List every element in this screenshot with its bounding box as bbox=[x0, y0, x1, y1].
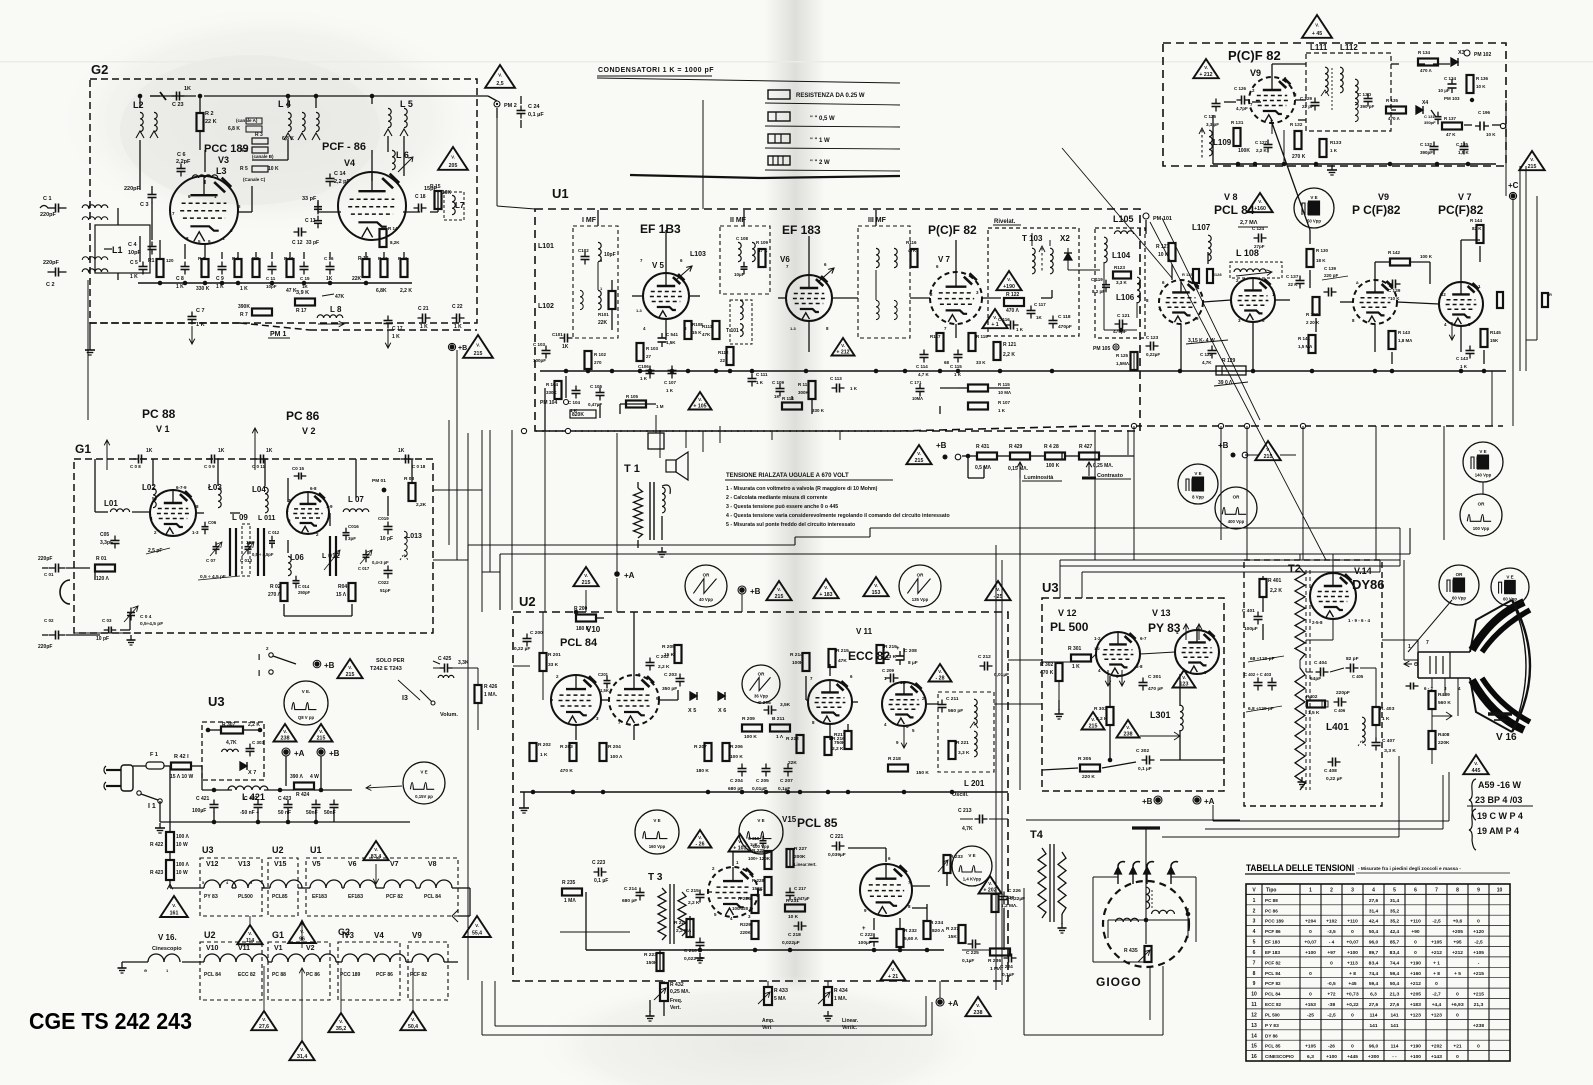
svg-text:PCF 86: PCF 86 bbox=[1265, 929, 1281, 934]
svg-text:V9: V9 bbox=[412, 931, 422, 940]
svg-text:+102: +102 bbox=[1326, 919, 1337, 925]
svg-text:15: 15 bbox=[1251, 1044, 1257, 1050]
svg-text:820K: 820K bbox=[572, 412, 584, 418]
wire u2 right links bbox=[1008, 699, 1060, 701]
svg-text:220pF: 220pF bbox=[40, 212, 57, 218]
resistor R238 1,2M bbox=[992, 894, 999, 912]
svg-text:1 K: 1 K bbox=[756, 380, 764, 385]
svg-text:R 5: R 5 bbox=[240, 166, 248, 172]
svg-text:220pF: 220pF bbox=[124, 186, 141, 192]
arrow I3 bbox=[398, 680, 420, 700]
capacitor C117 1K bbox=[1030, 306, 1032, 311]
capacitor C205 0,01uF bbox=[765, 764, 767, 769]
svg-text:R408: R408 bbox=[1438, 732, 1450, 738]
svg-text:R111: R111 bbox=[702, 324, 713, 329]
capacitor C218 0,022uF bbox=[794, 925, 799, 927]
svg-text:Ł03: Ł03 bbox=[208, 483, 222, 492]
resistor R307 2,2K bbox=[221, 727, 243, 734]
ground G2 left bbox=[89, 323, 91, 345]
triangle warn 445 bbox=[1463, 755, 1488, 774]
svg-text:50 nF: 50 nF bbox=[278, 810, 291, 816]
svg-text:V.: V. bbox=[584, 573, 588, 578]
capacitor C08 1K bbox=[134, 458, 139, 460]
triangle warn 83,4 bbox=[363, 841, 388, 860]
svg-text:390 pF: 390 pF bbox=[1360, 104, 1375, 109]
svg-text:PCL 84: PCL 84 bbox=[424, 894, 441, 900]
svg-text:Q8 V pp: Q8 V pp bbox=[298, 715, 315, 720]
svg-text:+A: +A bbox=[294, 749, 305, 758]
svg-text:2,2 K: 2,2 K bbox=[658, 664, 670, 670]
svg-text:R 226: R 226 bbox=[738, 896, 751, 902]
resistor R228 150K bbox=[765, 877, 772, 895]
svg-text:P(C)F 82: P(C)F 82 bbox=[1228, 48, 1281, 63]
tube V13 bbox=[1175, 630, 1219, 674]
box III MF bbox=[858, 226, 910, 338]
resistor R139 220K bbox=[1313, 297, 1320, 315]
svg-text:" " 2 W: " " 2 W bbox=[810, 160, 830, 166]
svg-text:3,3K: 3,3K bbox=[458, 660, 469, 666]
svg-text:4,7 K: 4,7 K bbox=[918, 372, 930, 377]
svg-text:R 424: R 424 bbox=[296, 792, 310, 798]
triangle warn 153 bbox=[863, 577, 888, 596]
capacitor C016 3pF bbox=[345, 528, 347, 533]
capacitor C116 1K bbox=[1006, 324, 1011, 326]
svg-text:" " 0,5 W: " " 0,5 W bbox=[810, 116, 835, 122]
svg-text:C 014: C 014 bbox=[298, 584, 310, 589]
svg-text:+190: +190 bbox=[1410, 960, 1421, 966]
svg-text:215: 215 bbox=[1264, 454, 1273, 460]
capacitor C101 1K bbox=[560, 337, 565, 339]
svg-text:2: 2 bbox=[1330, 888, 1333, 894]
svg-text:R 223: R 223 bbox=[644, 952, 657, 958]
resistor R1 120 bbox=[157, 259, 164, 277]
wave circle 60Vpp a bbox=[1439, 565, 1479, 605]
wire heater row1 end bbox=[458, 887, 470, 889]
svg-text:C 222: C 222 bbox=[860, 932, 873, 938]
resistor R117 68 bbox=[937, 333, 944, 351]
svg-text:Freq.: Freq. bbox=[670, 998, 683, 1004]
svg-text:PCF 82: PCF 82 bbox=[1265, 960, 1281, 965]
svg-text:PC(F)82: PC(F)82 bbox=[1438, 203, 1484, 217]
resistor R423 100ohm bbox=[166, 860, 174, 880]
capacitor C129 22pF bbox=[1314, 98, 1316, 103]
svg-text:R 426: R 426 bbox=[484, 684, 498, 690]
resistor R14 8,2K bbox=[380, 229, 387, 247]
trimmer C04 bbox=[130, 608, 132, 613]
svg-text:PCC 189: PCC 189 bbox=[1265, 919, 1284, 924]
svg-text:33 pF: 33 pF bbox=[302, 196, 317, 202]
svg-text:V.: V. bbox=[1007, 277, 1011, 282]
crt types bracket bbox=[1469, 779, 1476, 820]
resistor R135 470 bbox=[1386, 107, 1406, 114]
svg-text:C 223: C 223 bbox=[592, 860, 606, 866]
svg-text:PCL 85: PCL 85 bbox=[1265, 1044, 1281, 1049]
wave circle 140Vpp bbox=[1463, 442, 1503, 482]
pot R433 bbox=[764, 987, 772, 1005]
wire G1 interior bbox=[94, 459, 96, 512]
svg-text:3pF: 3pF bbox=[348, 536, 356, 541]
svg-text:OR: OR bbox=[1233, 495, 1241, 500]
resistor R202 1K bbox=[530, 743, 537, 761]
coil L7 bbox=[452, 195, 455, 214]
capacitor C18 15pF bbox=[414, 207, 419, 209]
coil L3 top bbox=[192, 175, 218, 178]
terminal +A psu bbox=[283, 749, 289, 755]
capacitor C131 bbox=[1437, 112, 1439, 117]
svg-text:50 Vpp: 50 Vpp bbox=[1307, 218, 1321, 223]
svg-text:I: I bbox=[258, 669, 260, 678]
capacitor C401 100pF bbox=[1257, 612, 1259, 617]
wire v3 plate to L4 bbox=[237, 211, 252, 213]
svg-text:1 K: 1 K bbox=[196, 322, 205, 328]
svg-text:V.: V. bbox=[698, 397, 702, 402]
svg-text:33 K: 33 K bbox=[548, 662, 559, 668]
svg-text:EF 18З: EF 18З bbox=[1265, 950, 1280, 955]
svg-text:V7: V7 bbox=[390, 861, 399, 868]
capacitor C127 2,2K bbox=[1267, 140, 1269, 145]
legend rule top bbox=[597, 78, 900, 83]
svg-text:470 pF: 470 pF bbox=[1148, 686, 1163, 692]
capacitor C301 470pF bbox=[1142, 678, 1144, 683]
heater V5 V6 V7 V8 bbox=[310, 880, 326, 888]
svg-text:1-2: 1-2 bbox=[1094, 636, 1101, 641]
capacitor C212 0,01uF bbox=[980, 665, 985, 667]
svg-text:100µF: 100µF bbox=[1244, 626, 1258, 632]
capacitor C113 1K bbox=[832, 387, 837, 389]
svg-text:R 4З5: R 4З5 bbox=[1124, 948, 1138, 954]
svg-text:560 pF: 560 pF bbox=[948, 708, 963, 714]
svg-text:C 103: C 103 bbox=[533, 342, 546, 347]
svg-text:220 pF: 220 pF bbox=[1324, 273, 1339, 278]
svg-text:36 Vpp: 36 Vpp bbox=[754, 694, 768, 699]
svg-text:0: 0 bbox=[1456, 992, 1459, 998]
svg-text:V E: V E bbox=[757, 818, 764, 823]
capacitor C404 64pF bbox=[1316, 671, 1321, 673]
capacitor C103 100pF bbox=[545, 346, 547, 351]
box heater G2b bbox=[338, 942, 400, 1000]
svg-text:ECC 82: ECC 82 bbox=[238, 972, 256, 978]
svg-text:C 3: C 3 bbox=[140, 202, 149, 208]
svg-text:445: 445 bbox=[1472, 768, 1481, 774]
capacitor C24 0,1uF bbox=[520, 106, 522, 111]
svg-text:R: R bbox=[1549, 292, 1552, 297]
svg-text:89,7: 89,7 bbox=[1369, 950, 1379, 956]
svg-text:0,1µF: 0,1µF bbox=[962, 958, 974, 964]
svg-text:+0,6: +0,6 bbox=[1453, 919, 1463, 925]
svg-text:C 0 9: C 0 9 bbox=[204, 464, 215, 469]
svg-text:120: 120 bbox=[166, 258, 174, 263]
svg-text:C 6: C 6 bbox=[177, 152, 186, 158]
svg-text:3: 3 bbox=[1351, 888, 1354, 894]
svg-text:V.: V. bbox=[938, 669, 942, 674]
svg-text:+18З: +18З bbox=[1410, 1002, 1421, 1008]
svg-text:0: 0 bbox=[1351, 1012, 1354, 1018]
svg-text:(canale A): (canale A) bbox=[236, 118, 258, 123]
wire pot row bbox=[962, 455, 977, 457]
resistor R107 1K bbox=[968, 403, 988, 410]
resistor R2 22K bbox=[197, 113, 204, 131]
svg-text:R 232: R 232 bbox=[904, 928, 917, 934]
svg-text:V.: V. bbox=[993, 315, 997, 320]
svg-text:L06: L06 bbox=[290, 553, 304, 562]
svg-text:1-9: 1-9 bbox=[326, 504, 333, 509]
svg-text:PL500: PL500 bbox=[238, 894, 253, 900]
svg-text:Oscill.: Oscill. bbox=[952, 792, 969, 798]
resistor R8 bbox=[253, 259, 260, 277]
svg-text:4 W: 4 W bbox=[310, 774, 319, 780]
svg-text:390pF: 390pF bbox=[1420, 150, 1433, 155]
resistor R108 15K bbox=[685, 321, 692, 339]
svg-text:U2: U2 bbox=[204, 930, 216, 940]
resistor R03 2,2K bbox=[409, 483, 416, 501]
svg-text:100µF: 100µF bbox=[192, 808, 206, 814]
svg-text:+B: +B bbox=[324, 661, 335, 670]
svg-text:0,15 MΛ.: 0,15 MΛ. bbox=[1008, 466, 1029, 472]
svg-text:2 20 K: 2 20 K bbox=[1306, 320, 1320, 325]
svg-text:L102: L102 bbox=[538, 303, 554, 310]
coil L106 bbox=[1137, 277, 1140, 303]
resistor R02 270 bbox=[281, 583, 288, 601]
svg-text:1K: 1K bbox=[1036, 315, 1043, 320]
svg-text:R 231: R 231 bbox=[786, 898, 799, 904]
diode X3 bbox=[1451, 58, 1458, 66]
svg-text:+A: +A bbox=[624, 571, 635, 580]
svg-text:270 K: 270 K bbox=[1292, 154, 1306, 160]
svg-text:Rivelat.: Rivelat. bbox=[994, 219, 1016, 225]
resistor R04 15 bbox=[349, 583, 356, 601]
svg-text:1K: 1K bbox=[562, 344, 569, 350]
transformer T3 bbox=[658, 888, 666, 940]
svg-text:C 206: C 206 bbox=[758, 700, 771, 706]
svg-text:V9: V9 bbox=[1378, 192, 1389, 202]
svg-text:22: 22 bbox=[720, 358, 726, 363]
svg-text:C 1: C 1 bbox=[43, 196, 52, 202]
svg-text:1 K: 1 K bbox=[420, 324, 428, 330]
svg-text:+202: +202 bbox=[1431, 1044, 1442, 1050]
wire flyback to crt bbox=[1382, 639, 1418, 641]
svg-text:+45: +45 bbox=[1348, 981, 1356, 987]
svg-text:12З: 12З bbox=[1179, 682, 1189, 688]
svg-text:R 113: R 113 bbox=[798, 382, 810, 387]
svg-text:PCC 189: PCC 189 bbox=[340, 972, 361, 978]
svg-text:V 8: V 8 bbox=[1224, 192, 1238, 202]
svg-text:R. 40З: R. 40З bbox=[1380, 706, 1394, 712]
svg-text:8,2 pF: 8,2 pF bbox=[1092, 289, 1105, 294]
resistor R4 canale B bbox=[252, 147, 268, 153]
svg-text:+ 105: + 105 bbox=[693, 404, 706, 410]
svg-text:R 01: R 01 bbox=[96, 556, 107, 562]
svg-text:+ 212: + 212 bbox=[1199, 72, 1212, 78]
heater V3 V4 bbox=[342, 954, 358, 962]
svg-text:A59 -16 W: A59 -16 W bbox=[1478, 780, 1522, 790]
svg-text:Contrasto: Contrasto bbox=[1097, 473, 1124, 479]
svg-text:1 K: 1 K bbox=[130, 274, 138, 280]
coil L401 bbox=[1362, 717, 1365, 743]
triangle warn 215 u2 bbox=[766, 581, 791, 600]
svg-text:330K: 330K bbox=[546, 390, 558, 395]
svg-text:15 Λ: 15 Λ bbox=[336, 592, 347, 598]
capacitor C214 680pF bbox=[639, 888, 641, 893]
svg-text:R 143: R 143 bbox=[1398, 330, 1411, 335]
svg-text:-2,5: -2,5 bbox=[1327, 1012, 1336, 1018]
box G1 bbox=[74, 459, 433, 633]
svg-text:11: 11 bbox=[1251, 1002, 1257, 1008]
wire right bus 371 bbox=[1140, 370, 1506, 372]
wire U1 bottom rail bbox=[536, 430, 900, 432]
svg-text:V.: V. bbox=[374, 847, 378, 852]
giogo coil right bbox=[1152, 910, 1175, 914]
pot R435 bbox=[1145, 946, 1152, 962]
svg-text:T 1: T 1 bbox=[624, 463, 640, 475]
resistor R111 47K bbox=[713, 321, 720, 339]
ground C216 bbox=[699, 953, 701, 958]
resistor R15 10K bbox=[435, 191, 442, 209]
box L1 bbox=[95, 225, 150, 273]
svg-text:4,7K: 4,7K bbox=[962, 826, 973, 832]
resistor R5 canale C bbox=[252, 166, 268, 172]
svg-text:750K: 750K bbox=[834, 740, 846, 746]
svg-text:V 2: V 2 bbox=[302, 426, 316, 436]
svg-text:EF18З: EF18З bbox=[348, 894, 363, 900]
resistor R217 750K bbox=[845, 731, 852, 749]
svg-text:161: 161 bbox=[170, 911, 179, 917]
svg-text:V.: V. bbox=[988, 881, 992, 886]
resistor R427 bbox=[1079, 453, 1099, 460]
svg-text:R 12: R 12 bbox=[378, 256, 388, 261]
resistor R132 270K bbox=[1295, 131, 1302, 149]
svg-text:V4: V4 bbox=[374, 931, 384, 940]
svg-text:10µF: 10µF bbox=[734, 272, 745, 277]
svg-text:C 218: C 218 bbox=[788, 932, 801, 938]
wire U3 line bbox=[1042, 661, 1070, 663]
svg-text:22 K: 22 K bbox=[205, 119, 217, 125]
svg-text:64pF: 64pF bbox=[1310, 676, 1321, 682]
svg-text:+100: +100 bbox=[1326, 1054, 1337, 1060]
svg-text:0: 0 bbox=[1309, 992, 1312, 998]
coil L5 bbox=[388, 108, 391, 127]
svg-text:+ 8: + 8 bbox=[1433, 971, 1440, 977]
capacitor C121b bbox=[919, 384, 921, 389]
svg-text:R 237: R 237 bbox=[946, 926, 959, 932]
diode X7 bbox=[240, 762, 247, 770]
svg-text:R229: R229 bbox=[740, 922, 751, 927]
svg-text:C 107: C 107 bbox=[664, 380, 677, 385]
svg-text:V.: V. bbox=[498, 73, 502, 78]
svg-text:+З00: +З00 bbox=[1368, 1054, 1379, 1060]
svg-text:135 Vpp: 135 Vpp bbox=[912, 597, 929, 602]
svg-text:1 K: 1 K bbox=[1072, 664, 1080, 670]
coil L07 bbox=[343, 509, 369, 512]
capacitor C215 2,2K bbox=[699, 890, 701, 895]
svg-text:-50 nF +: -50 nF + bbox=[240, 810, 259, 816]
svg-text:470 K: 470 K bbox=[1040, 670, 1054, 676]
tube V10a bbox=[551, 675, 601, 725]
svg-text:V E.: V E. bbox=[302, 689, 311, 694]
svg-text:31,4: 31,4 bbox=[1369, 908, 1379, 914]
coil T103 bbox=[1032, 248, 1035, 274]
svg-text:680 pF: 680 pF bbox=[622, 898, 637, 904]
svg-text:R 307: R 307 bbox=[222, 722, 236, 728]
svg-text:U2: U2 bbox=[272, 845, 284, 855]
triangle warn 215 g2 bbox=[463, 335, 493, 358]
capacitor C011 1K bbox=[256, 458, 261, 460]
svg-text:100 K: 100 K bbox=[1046, 463, 1060, 469]
svg-text:C 12З: C 12З bbox=[1146, 335, 1159, 340]
svg-text:R217: R217 bbox=[834, 732, 846, 738]
heater V1 V2 bbox=[272, 954, 288, 962]
svg-text:R117: R117 bbox=[930, 334, 941, 339]
svg-text:2,2 K: 2,2 K bbox=[688, 900, 700, 906]
svg-text:L105: L105 bbox=[1113, 214, 1134, 224]
svg-text:16: 16 bbox=[1251, 1054, 1257, 1060]
svg-text:+B: +B bbox=[329, 749, 340, 758]
wire top right vert bbox=[1505, 100, 1507, 160]
flyback winding bottom bbox=[1295, 668, 1305, 790]
resistor R121 2,2K bbox=[994, 342, 1001, 360]
terminal +B g2 bbox=[450, 345, 455, 350]
svg-text:V 7: V 7 bbox=[938, 255, 951, 264]
svg-text:L 201: L 201 bbox=[964, 779, 985, 788]
svg-text:V.: V. bbox=[1266, 447, 1270, 452]
resistor R206 100K bbox=[723, 743, 730, 761]
svg-text:1 K: 1 K bbox=[998, 408, 1006, 413]
svg-text:0: 0 bbox=[1351, 929, 1354, 935]
svg-text:U3: U3 bbox=[1042, 580, 1059, 595]
svg-text:V.: V. bbox=[451, 155, 455, 160]
svg-text:PC 86: PC 86 bbox=[1265, 908, 1278, 913]
svg-text:C 24: C 24 bbox=[528, 104, 541, 110]
svg-text:PM 2: PM 2 bbox=[504, 103, 517, 109]
coil L112 bbox=[1355, 79, 1358, 105]
svg-text:141: 141 bbox=[1390, 1012, 1398, 1018]
resistor R236 1M bbox=[990, 949, 1010, 956]
svg-text:100/120 K: 100/120 K bbox=[732, 906, 754, 911]
capacitor C201 bbox=[606, 676, 608, 681]
svg-text:C 8: C 8 bbox=[176, 276, 184, 282]
capacitor C119 bbox=[1105, 280, 1107, 285]
svg-text:+6,9З: +6,9З bbox=[1451, 1002, 1463, 1008]
svg-text:820 Λ: 820 Λ bbox=[932, 928, 945, 934]
svg-text:+215: +215 bbox=[1473, 992, 1484, 998]
svg-text:R 4 28: R 4 28 bbox=[1044, 444, 1059, 450]
svg-text:23 BP 4 /03: 23 BP 4 /03 bbox=[1475, 795, 1522, 805]
svg-text:PL 500: PL 500 bbox=[1050, 620, 1089, 634]
svg-text:L7: L7 bbox=[455, 201, 465, 210]
svg-text:1-3: 1-3 bbox=[790, 326, 797, 331]
svg-text:C 216: C 216 bbox=[684, 948, 697, 954]
svg-text:1,5 K: 1,5 K bbox=[1458, 150, 1470, 155]
svg-text:TABELLA DELLE TENSIONI: TABELLA DELLE TENSIONI bbox=[1246, 863, 1354, 873]
svg-text:PCL 85: PCL 85 bbox=[797, 816, 838, 830]
svg-text:+100: +100 bbox=[1347, 950, 1358, 956]
svg-text:0: 0 bbox=[1456, 1054, 1459, 1060]
svg-text:V4: V4 bbox=[344, 158, 355, 168]
crt yoke dark bbox=[1472, 602, 1524, 650]
svg-text:+160: +160 bbox=[1254, 206, 1266, 212]
svg-text:PL 500: PL 500 bbox=[1265, 1012, 1280, 1017]
svg-text:OR: OR bbox=[917, 573, 925, 578]
trimmer C017 bbox=[365, 550, 367, 555]
resistor R232 560 bbox=[897, 929, 904, 947]
svg-text:L104: L104 bbox=[1112, 251, 1131, 260]
svg-text:C 407: C 407 bbox=[1382, 738, 1395, 744]
svg-text:1µK: 1µK bbox=[750, 842, 758, 847]
coil III MF bbox=[876, 248, 879, 267]
svg-text:C 125: C 125 bbox=[1204, 114, 1217, 119]
capacitor C139a bbox=[1324, 291, 1329, 293]
svg-text:1-2: 1-2 bbox=[1094, 646, 1101, 651]
svg-text:+12З: +12З bbox=[1410, 1012, 1421, 1018]
